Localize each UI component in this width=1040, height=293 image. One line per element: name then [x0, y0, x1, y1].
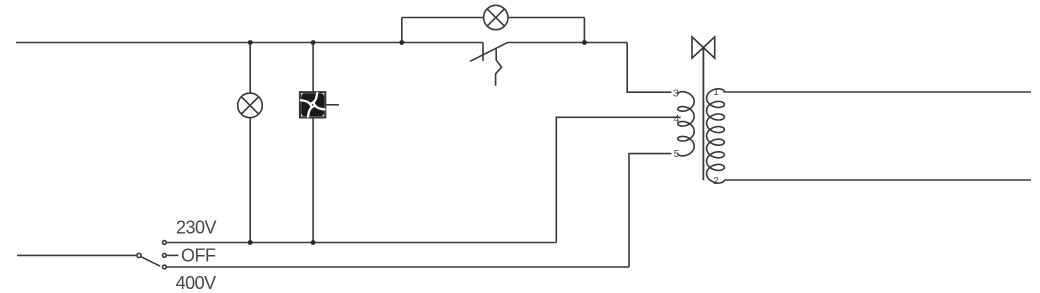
- node junction bypass right: [582, 40, 587, 45]
- svg-text:3: 3: [673, 87, 679, 99]
- wire secondary pin 2 lead: [724, 179, 1031, 181]
- wire lamp H1 branch lower: [249, 118, 251, 243]
- wire 400V rail: [166, 266, 629, 268]
- wire lamp H1 branch upper: [249, 43, 251, 94]
- svg-text:1: 1: [713, 86, 719, 98]
- fan M1 right stub: [325, 104, 339, 106]
- transformer T1 core: [702, 48, 704, 181]
- transformer T1 secondary winding: [707, 89, 725, 183]
- node junction 230V rail at lamp branch: [248, 240, 253, 245]
- switch S2 fixed contact stub: [482, 43, 484, 62]
- selector switch S1 lever: [141, 257, 160, 267]
- wire OFF stub: [166, 254, 178, 256]
- wire 230V rail: [166, 242, 556, 244]
- svg-text:400V: 400V: [176, 273, 217, 293]
- wire fan M1 branch lower: [312, 117, 314, 242]
- svg-text:230V: 230V: [176, 218, 217, 238]
- transformer T1 primary winding: [678, 92, 694, 156]
- wire 230V riser to primary pin 4: [556, 117, 680, 242]
- wire 400V riser to primary pin 5: [629, 154, 672, 267]
- node junction bypass left: [399, 40, 404, 45]
- selector switch S1 contact 230V: [163, 241, 167, 245]
- wire secondary pin 1 lead: [724, 91, 1032, 93]
- node junction 230V rail at fan branch: [311, 240, 316, 245]
- lamp H1 (left indicator lamp): [238, 93, 263, 118]
- wire right drop to primary pin 3: [627, 43, 671, 93]
- wire bottom feed left: [17, 254, 137, 256]
- wire fan M1 branch upper: [312, 43, 314, 93]
- switch S2 actuator linkage: [496, 49, 502, 86]
- wire bypass top right horizontal: [508, 17, 584, 19]
- wire bypass left riser: [401, 18, 403, 43]
- switch S2 lever: [470, 42, 508, 61]
- svg-text:OFF: OFF: [181, 246, 216, 266]
- node junction top at lamp branch: [248, 40, 253, 45]
- selector switch S1 contact OFF: [163, 254, 167, 258]
- node junction top at fan branch: [311, 40, 316, 45]
- wire bypass right riser: [583, 18, 585, 43]
- fan M1 blades: [301, 93, 325, 117]
- selector switch S1 contact 400V: [163, 265, 167, 269]
- svg-text:2: 2: [713, 175, 719, 187]
- svg-text:5: 5: [674, 148, 680, 160]
- fan M1 frame: [300, 92, 325, 117]
- selector switch S1 pivot: [137, 253, 141, 257]
- wire L1 top main left segment: [16, 42, 483, 44]
- thermal cutout F1 (bowtie symbol): [692, 37, 715, 58]
- wire top main right segment: [508, 42, 628, 44]
- wire bypass top left horizontal: [402, 17, 484, 19]
- svg-text:4: 4: [674, 113, 680, 125]
- lamp H2 (top indicator lamp): [484, 5, 508, 29]
